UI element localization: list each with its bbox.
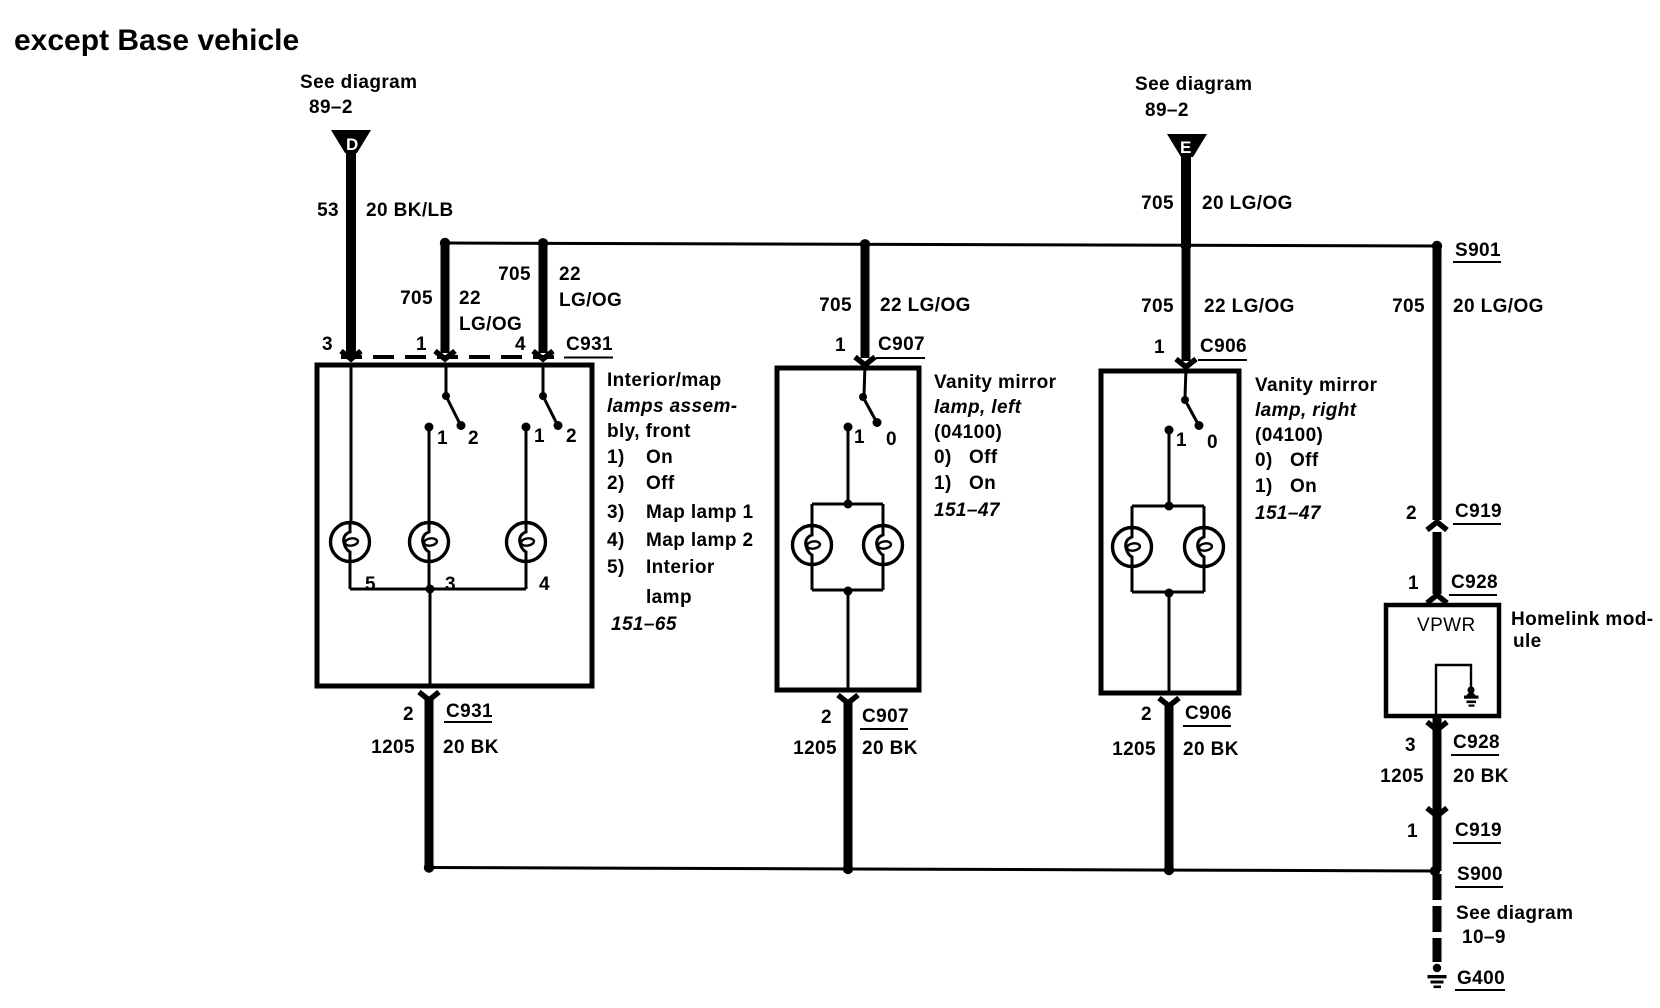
junction node at x1186	[1181, 240, 1191, 250]
bulb map lamp 2 (4)	[507, 523, 546, 562]
wire 705 22 LG/OG to C931 pin 4	[539, 243, 548, 353]
svg-text:22: 22	[459, 288, 481, 309]
Vanity mirror right text block	[1255, 375, 1378, 524]
svg-text:2: 2	[1141, 704, 1152, 725]
svg-text:22 LG/OG: 22 LG/OG	[880, 295, 971, 316]
node rail bottom (left vanity)	[844, 587, 853, 596]
svg-text:C906: C906	[1185, 703, 1232, 724]
svg-text:1: 1	[416, 334, 427, 355]
svg-text:2: 2	[1406, 503, 1417, 524]
svg-text:1205: 1205	[1112, 739, 1156, 760]
svg-text:3: 3	[1405, 735, 1416, 756]
svg-text:1: 1	[1154, 337, 1165, 358]
svg-text:On: On	[646, 447, 673, 468]
arrow into C919	[1427, 522, 1447, 530]
Vanity mirror lamp left box	[777, 368, 919, 690]
wire 705 22 LG/OG to C907	[861, 244, 870, 358]
svg-text:1: 1	[1408, 573, 1419, 594]
G400 label	[1455, 968, 1505, 990]
svg-text:On: On	[1290, 476, 1317, 497]
svg-text:C931: C931	[566, 334, 613, 355]
connector D triangle	[331, 130, 371, 154]
wire 53 20 BK/LB from D to C931 pin 3	[346, 150, 356, 357]
wire to pin 2 (right vanity)	[1168, 593, 1171, 693]
svg-text:1: 1	[854, 427, 865, 448]
svg-text:22 LG/OG: 22 LG/OG	[1204, 296, 1295, 317]
node rail top (left vanity)	[844, 500, 853, 509]
svg-text:705: 705	[498, 264, 531, 285]
svg-text:ule: ule	[1513, 631, 1542, 652]
svg-text:1205: 1205	[371, 737, 415, 758]
svg-text:1: 1	[1407, 821, 1418, 842]
svg-text:C907: C907	[862, 706, 909, 727]
bulb interior lamp (5)	[331, 523, 370, 562]
svg-text:1: 1	[534, 426, 545, 447]
svg-text:LG/OG: LG/OG	[459, 314, 522, 335]
svg-text:2): 2)	[607, 473, 625, 494]
bulb bottom wires and rail box1	[349, 561, 352, 589]
node rail top (right vanity)	[1165, 502, 1174, 511]
svg-text:705: 705	[819, 295, 852, 316]
svg-text:S901: S901	[1455, 240, 1501, 261]
svg-text:20 LG/OG: 20 LG/OG	[1453, 296, 1544, 317]
svg-text:3: 3	[445, 574, 456, 595]
wire 705 20 LG/OG from S901 to homelink	[1433, 246, 1442, 520]
svg-text:G400: G400	[1457, 968, 1505, 989]
svg-text:5): 5)	[607, 557, 625, 578]
splice S900 node	[1430, 866, 1440, 876]
arrow into C928	[1427, 595, 1447, 603]
svg-text:0: 0	[1207, 432, 1218, 453]
arrow into C906	[1176, 359, 1196, 367]
switch pivot (left vanity)	[859, 393, 867, 401]
lamp bottom rail (right vanity)	[1131, 566, 1134, 592]
switch contact 1 (right vanity)	[1165, 426, 1174, 435]
wire pin3 to interior lamp	[350, 365, 353, 523]
svg-text:151–47: 151–47	[1255, 503, 1322, 524]
svg-text:2: 2	[403, 704, 414, 725]
svg-text:C919: C919	[1455, 820, 1502, 841]
lamp bottom rail (left vanity)	[811, 564, 814, 590]
svg-text:C928: C928	[1451, 572, 1498, 593]
connector C919 label (right top)	[1453, 501, 1502, 524]
svg-text:1205: 1205	[1380, 766, 1424, 787]
svg-text:3): 3)	[607, 502, 625, 523]
wire contact to lamp rail (right vanity)	[1168, 432, 1171, 506]
svg-text:1: 1	[835, 335, 846, 356]
svg-text:Interior: Interior	[646, 557, 715, 578]
connector E label "See diagram 89-2"	[1135, 74, 1252, 121]
See diagram 10-9 label	[1456, 903, 1573, 948]
connector E triangle	[1167, 134, 1207, 157]
svg-text:Off: Off	[1290, 450, 1319, 471]
arrow into C907	[855, 357, 875, 365]
wire to pin 2 (left vanity)	[847, 591, 850, 690]
svg-text:20 BK: 20 BK	[862, 738, 918, 759]
svg-text:except Base vehicle: except Base vehicle	[14, 24, 299, 57]
switch A pivot	[442, 392, 450, 400]
svg-text:lamp: lamp	[646, 587, 692, 608]
svg-text:E: E	[1180, 138, 1191, 157]
svg-text:151–65: 151–65	[611, 614, 677, 635]
svg-text:89–2: 89–2	[1145, 100, 1189, 121]
wire contact1 to map lamp 1	[428, 429, 431, 523]
switch B blade	[543, 396, 557, 424]
wire into switch C907	[864, 365, 865, 395]
svg-text:705: 705	[1141, 193, 1174, 214]
svg-text:Map lamp 1: Map lamp 1	[646, 502, 754, 523]
switch B pivot	[539, 392, 547, 400]
switch B contact 1	[522, 423, 531, 432]
connector C931 label (bottom)	[444, 701, 493, 722]
svg-text:S900: S900	[1457, 864, 1503, 885]
svg-text:LG/OG: LG/OG	[559, 290, 622, 311]
wire contact1 to map lamp 2	[525, 429, 528, 523]
svg-text:705: 705	[400, 288, 433, 309]
svg-text:lamp, right: lamp, right	[1255, 400, 1357, 421]
node C907 ground	[843, 864, 853, 874]
svg-text:89–2: 89–2	[309, 97, 353, 118]
arrow into C931 pin 1	[435, 351, 455, 359]
svg-text:1): 1)	[607, 447, 625, 468]
arrow out of C907 pin 2	[838, 695, 858, 703]
svg-text:1: 1	[1176, 430, 1187, 451]
svg-text:1): 1)	[934, 473, 952, 494]
connector C907 label (bottom)	[860, 706, 909, 729]
ground G400 symbol	[1428, 964, 1447, 988]
wire 1205 20 BK from C931	[425, 698, 434, 868]
svg-text:See diagram: See diagram	[1456, 903, 1573, 924]
switch blade (left vanity)	[863, 397, 876, 421]
bulb map lamp 1 (3)	[410, 523, 449, 562]
svg-text:See diagram: See diagram	[1135, 74, 1252, 95]
svg-text:4: 4	[539, 574, 550, 595]
bulb left vanity A	[793, 526, 832, 565]
dashed wire S900 to G400	[1433, 874, 1442, 962]
arrow into C931 pin 4	[533, 351, 553, 359]
connector C919 label (bottom)	[1453, 820, 1502, 843]
svg-text:4: 4	[515, 334, 526, 355]
Homelink module box	[1386, 605, 1499, 716]
svg-text:0: 0	[886, 429, 897, 450]
svg-text:5: 5	[365, 574, 376, 595]
wire 705 22 LG/OG to C931 pin 1	[441, 243, 450, 353]
svg-text:Interior/map: Interior/map	[607, 370, 722, 391]
junction node at x445	[440, 238, 450, 248]
connector C907 label (top)	[876, 334, 925, 358]
S900 label	[1455, 864, 1503, 887]
svg-text:1): 1)	[1255, 476, 1273, 497]
svg-text:1: 1	[437, 428, 448, 449]
connector C931 label (top)	[564, 334, 613, 358]
Homelink module label	[1511, 609, 1653, 652]
svg-text:151–47: 151–47	[934, 500, 1001, 521]
arrow into C931 pin 3	[341, 351, 361, 359]
svg-text:On: On	[969, 473, 996, 494]
arrow out of C906 pin 2	[1159, 698, 1179, 706]
switch A blade	[446, 396, 460, 424]
wire pin1 to switch A	[445, 365, 448, 394]
svg-text:VPWR: VPWR	[1417, 615, 1476, 636]
svg-text:22: 22	[559, 264, 581, 285]
switch blade (right vanity)	[1185, 400, 1198, 424]
svg-text:3: 3	[322, 334, 333, 355]
svg-text:53: 53	[317, 200, 339, 221]
wire 1205 20 BK from homelink	[1433, 716, 1442, 871]
arrow out of C931 pin 2	[419, 692, 439, 700]
wire 705 20 LG/OG from E to splice bus	[1181, 155, 1191, 248]
svg-text:C931: C931	[446, 701, 493, 722]
wire 705 22 LG/OG to C906	[1182, 245, 1191, 361]
svg-text:lamp, left: lamp, left	[934, 397, 1022, 418]
Vanity mirror lamp right box	[1101, 371, 1239, 693]
node rail bottom (right vanity)	[1165, 589, 1174, 598]
svg-text:(04100): (04100)	[934, 422, 1002, 443]
connector C928 label (bottom)	[1451, 732, 1500, 755]
svg-text:C906: C906	[1200, 336, 1247, 357]
bulb right vanity A	[1113, 528, 1152, 567]
svg-text:lamps assem-: lamps assem-	[607, 396, 737, 417]
svg-text:1205: 1205	[793, 738, 837, 759]
wire 1205 20 BK from C906	[1165, 704, 1174, 871]
svg-text:See diagram: See diagram	[300, 72, 417, 93]
svg-text:20 BK: 20 BK	[443, 737, 499, 758]
wire into switch C906	[1185, 368, 1186, 398]
svg-text:20 BK: 20 BK	[1183, 739, 1239, 760]
switch contact 1 (left vanity)	[844, 423, 853, 432]
svg-text:2: 2	[821, 707, 832, 728]
Interior/map lamps text block	[607, 370, 754, 635]
splice S901 node	[1432, 241, 1442, 251]
switch A contact 1	[425, 423, 434, 432]
svg-text:4): 4)	[607, 530, 625, 551]
svg-text:10–9: 10–9	[1462, 927, 1506, 948]
arrow out of homelink pin 3	[1427, 722, 1447, 730]
svg-text:705: 705	[1141, 296, 1174, 317]
wire C919 to C928	[1433, 532, 1442, 594]
bulb left vanity B	[864, 526, 903, 565]
svg-text:C907: C907	[878, 334, 925, 355]
svg-text:2: 2	[566, 426, 577, 447]
svg-text:2: 2	[468, 428, 479, 449]
bulb right vanity B	[1185, 528, 1224, 567]
svg-text:20 BK/LB: 20 BK/LB	[366, 200, 454, 221]
Vanity mirror left text block	[934, 372, 1057, 521]
connector C931 dashed line	[341, 355, 556, 359]
connector D label "See diagram 89-2"	[300, 72, 417, 118]
svg-text:0): 0)	[1255, 450, 1273, 471]
homelink internal ground symbol	[1464, 686, 1479, 706]
Interior/map lamps assembly box	[317, 365, 592, 686]
wire to pin 2	[429, 589, 432, 686]
svg-text:Off: Off	[646, 473, 675, 494]
connector C928 label (right top)	[1449, 572, 1498, 595]
wire pin4 to switch B	[542, 365, 545, 394]
svg-text:Vanity mirror: Vanity mirror	[934, 372, 1057, 393]
wire contact to lamp rail	[847, 429, 850, 504]
svg-text:Vanity mirror: Vanity mirror	[1255, 375, 1378, 396]
switch pivot (right vanity)	[1181, 396, 1189, 404]
node C931 ground	[424, 862, 434, 872]
connector C906 label (bottom)	[1183, 703, 1232, 726]
svg-text:20 BK: 20 BK	[1453, 766, 1509, 787]
junction node at x543	[538, 238, 548, 248]
arrow into C919 bottom	[1427, 808, 1447, 816]
S901 label	[1453, 240, 1501, 262]
svg-text:(04100): (04100)	[1255, 425, 1323, 446]
svg-text:Off: Off	[969, 447, 998, 468]
svg-text:C928: C928	[1453, 732, 1500, 753]
homelink internal ground wire	[1436, 665, 1471, 716]
node C906 ground	[1164, 865, 1174, 875]
lamp top rail (right vanity)	[1132, 505, 1204, 508]
connector C906 label (top)	[1198, 336, 1247, 360]
svg-text:C919: C919	[1455, 501, 1502, 522]
node box1 bottom	[426, 585, 435, 594]
splice bus S901 horizontal wire	[445, 243, 1437, 246]
svg-text:Homelink mod-: Homelink mod-	[1511, 609, 1653, 630]
wire 1205 20 BK from C907	[844, 701, 853, 869]
svg-text:0): 0)	[934, 447, 952, 468]
junction node at x865	[860, 239, 870, 249]
svg-text:20 LG/OG: 20 LG/OG	[1202, 193, 1293, 214]
lamp top rail (left vanity)	[812, 503, 883, 506]
ground bus wire	[429, 868, 1435, 872]
svg-text:bly, front: bly, front	[607, 421, 691, 442]
svg-text:Map lamp 2: Map lamp 2	[646, 530, 753, 551]
svg-text:705: 705	[1392, 296, 1425, 317]
